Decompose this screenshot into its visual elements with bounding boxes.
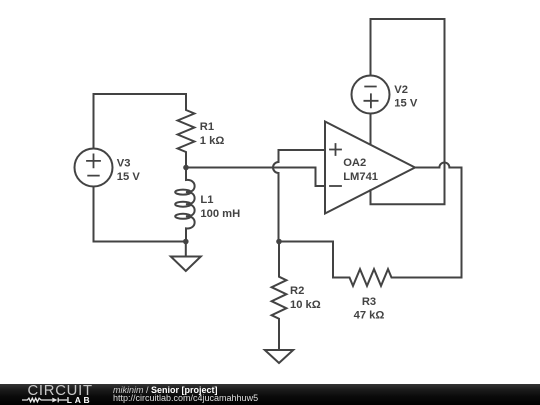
op-amp plus input marking xyxy=(330,144,341,155)
footer bar xyxy=(0,384,540,405)
wire V2 top around to op-amp V- pin xyxy=(371,19,445,204)
logo diode xyxy=(52,398,57,403)
inductor L1 loops xyxy=(175,190,191,195)
wire R3 right lead up to output xyxy=(461,168,463,278)
svg-text:R1: R1 xyxy=(200,121,214,133)
logo resistor zigzag xyxy=(22,398,52,402)
resistor R3 xyxy=(333,269,462,286)
ground G2 under R2 xyxy=(265,350,293,363)
svg-text:R3: R3 xyxy=(362,296,376,308)
svg-text:100 mH: 100 mH xyxy=(200,208,240,220)
footer attribution text xyxy=(113,386,258,403)
node A junction dot (R1/L1 junction) xyxy=(183,165,189,171)
node junction dot at L1 bottom / ground xyxy=(183,239,189,245)
svg-text:15 V: 15 V xyxy=(117,171,141,183)
op-amp minus input marking xyxy=(330,185,341,187)
svg-text:OA2: OA2 xyxy=(343,157,366,169)
CircuitLab logo text LAB xyxy=(67,396,93,405)
node B junction dot (R2 top) xyxy=(276,239,282,245)
wire node B to R3 left xyxy=(279,242,333,278)
svg-text:1 kΩ: 1 kΩ xyxy=(200,135,225,147)
voltage source V2 xyxy=(352,76,390,114)
op-amp OA2 triangle xyxy=(325,122,415,214)
ground G1 under L1 xyxy=(171,242,201,272)
svg-text:10 kΩ: 10 kΩ xyxy=(290,299,321,311)
wire V3 bottom to L1 bottom xyxy=(94,187,186,242)
wire op-amp non-inverting input down to node B (with hop over horizontal wire) xyxy=(273,150,325,242)
svg-text:15 V: 15 V xyxy=(394,98,418,110)
svg-text:V3: V3 xyxy=(117,157,131,169)
CircuitLab logo schematic glyph (resistor + diode) xyxy=(22,396,68,404)
wire node A to op-amp inverting input xyxy=(186,168,325,187)
svg-text:L1: L1 xyxy=(200,194,213,206)
wire top-left loop from V3 top to R1 top xyxy=(94,94,187,149)
inductor L1 xyxy=(186,168,195,242)
wire op-amp V+ pin to V2 bottom xyxy=(370,114,372,145)
svg-text:V2: V2 xyxy=(394,84,408,96)
CircuitLab logo text CIRCUIT xyxy=(28,384,93,399)
svg-text:LM741: LM741 xyxy=(343,171,378,183)
wire op-amp output (with hop over supply wire) xyxy=(415,163,462,168)
svg-text:R2: R2 xyxy=(290,285,304,297)
resistor R1 xyxy=(178,94,195,168)
resistor R2 xyxy=(272,242,287,351)
svg-text:47 kΩ: 47 kΩ xyxy=(354,310,385,322)
voltage source V3 xyxy=(75,149,113,187)
